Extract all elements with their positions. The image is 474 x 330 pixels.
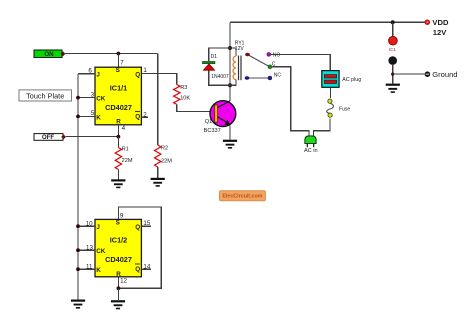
- junction rail: [391, 20, 395, 24]
- svg-text:22M: 22M: [161, 159, 172, 165]
- wire left bus vertical: [77, 74, 79, 300]
- relay contacts: [245, 52, 282, 80]
- wire pin5 K stub: [78, 115, 95, 117]
- terminal VDD 12V: [425, 18, 449, 37]
- svg-text:R3: R3: [180, 85, 187, 91]
- wire pin6 J stub: [78, 73, 95, 75]
- svg-text:CD4027: CD4027: [105, 103, 132, 112]
- svg-text:Q1: Q1: [205, 119, 212, 125]
- junction pin3 node: [76, 96, 80, 100]
- svg-text:ElecCircuit.com: ElecCircuit.com: [222, 194, 262, 200]
- svg-text:4: 4: [122, 125, 126, 132]
- wire emitter to ground: [229, 125, 231, 139]
- svg-text:J: J: [96, 71, 100, 78]
- svg-text:J: J: [96, 224, 100, 231]
- svg-text:R1: R1: [122, 146, 129, 152]
- wire ON to node: [64, 53, 158, 55]
- junction coil bottom: [228, 83, 232, 87]
- svg-text:VDD: VDD: [432, 18, 449, 27]
- wire OFF to pin4: [66, 136, 118, 138]
- svg-text:CK: CK: [96, 248, 106, 255]
- svg-text:K: K: [96, 114, 101, 121]
- wire pin11 stub: [78, 268, 95, 270]
- svg-text:Q: Q: [135, 113, 140, 120]
- svg-text:IC1: IC1: [389, 47, 396, 52]
- svg-text:S: S: [116, 219, 120, 226]
- transistor Q1 BC337: [204, 101, 236, 134]
- svg-text:K: K: [96, 267, 101, 274]
- junction S node: [117, 52, 121, 56]
- IC1 ground pin: [388, 56, 397, 83]
- IC U1:A CD4027 body: [95, 67, 141, 126]
- label Touch Plate: [19, 90, 72, 101]
- ground R2: [151, 178, 165, 187]
- junction coil top: [228, 46, 232, 50]
- svg-text:BC337: BC337: [204, 128, 221, 134]
- svg-text:S: S: [116, 67, 120, 74]
- junction ground node: [391, 73, 394, 76]
- svg-text:Touch Plate: Touch Plate: [26, 91, 64, 100]
- svg-text:D1: D1: [211, 54, 218, 60]
- wire NO to AC plug: [271, 54, 330, 70]
- terminal ON: [34, 50, 65, 58]
- svg-text:IC1/2: IC1/2: [110, 236, 127, 245]
- wire fuse to AC in: [314, 118, 330, 135]
- terminal OFF: [34, 134, 66, 142]
- wire S pin9 loop: [118, 207, 161, 288]
- relay RY1 coil: [230, 41, 245, 86]
- svg-text:ON: ON: [44, 51, 54, 58]
- svg-text:10K: 10K: [180, 96, 190, 102]
- junction pin4/R1: [117, 135, 121, 139]
- watermark ElecCircuit.com: [220, 191, 266, 201]
- svg-text:AC plug: AC plug: [342, 77, 361, 83]
- svg-text:12: 12: [120, 278, 127, 285]
- svg-text:1N4007: 1N4007: [211, 74, 229, 80]
- svg-text:Q: Q: [135, 224, 140, 231]
- svg-text:Ground: Ground: [432, 70, 457, 79]
- wire to Ground terminal: [393, 73, 425, 75]
- fuse F1: [327, 99, 351, 117]
- wire ON net down to R2: [157, 54, 159, 146]
- wire S pin7: [117, 54, 119, 68]
- svg-text:12V: 12V: [235, 46, 245, 52]
- resistor R3: [174, 85, 211, 112]
- diode D1 1N4007: [202, 48, 230, 85]
- wire C to AC in: [272, 67, 309, 136]
- svg-text:Q: Q: [135, 266, 140, 273]
- svg-text:9: 9: [120, 213, 124, 220]
- junction pin11: [76, 267, 80, 271]
- wire pin3 CK stub: [78, 97, 95, 99]
- junction pin5 node: [76, 115, 80, 119]
- wire pin4 R stub: [117, 125, 119, 137]
- wire pin14 stub: [141, 268, 150, 270]
- svg-text:CK: CK: [96, 96, 106, 103]
- terminal Ground: [425, 70, 458, 79]
- svg-text:NC: NC: [274, 73, 282, 79]
- IC U1:B CD4027 body: [95, 219, 141, 277]
- wire pin10 stub: [78, 225, 95, 227]
- junction pin10: [76, 224, 80, 228]
- wire pin15 stub: [141, 225, 150, 227]
- ground left bus: [71, 300, 85, 309]
- ground pin12: [111, 300, 125, 309]
- AC in plug: [304, 136, 318, 154]
- ground Q1: [223, 140, 237, 149]
- svg-text:IC1/1: IC1/1: [110, 84, 127, 93]
- junction pin13: [76, 248, 80, 252]
- resistor R2: [155, 145, 173, 178]
- wire pin13 stub: [78, 249, 95, 251]
- svg-text:22M: 22M: [122, 158, 133, 164]
- svg-text:7: 7: [120, 59, 124, 66]
- wire pin2 Qbar stub: [141, 116, 148, 118]
- wire Q pin1 to R3: [141, 74, 176, 85]
- wire pin12 R stub: [117, 277, 119, 289]
- svg-text:OFF: OFF: [42, 134, 55, 141]
- ground symbol right: [386, 84, 400, 93]
- AC plug: [322, 71, 361, 88]
- svg-text:R: R: [116, 118, 121, 125]
- svg-text:Fuse: Fuse: [339, 107, 350, 113]
- svg-text:12V: 12V: [433, 28, 447, 37]
- junction pin12: [117, 286, 121, 290]
- ground R1: [111, 179, 125, 188]
- svg-text:R2: R2: [161, 145, 168, 151]
- svg-text:NO: NO: [273, 53, 281, 59]
- svg-text:Q: Q: [135, 71, 140, 78]
- svg-text:CD4027: CD4027: [105, 255, 132, 264]
- svg-text:AC in: AC in: [304, 148, 318, 154]
- resistor R1: [115, 137, 133, 180]
- wire AC plug to fuse: [329, 87, 331, 98]
- wire pin12 to ground: [117, 288, 119, 300]
- IC1 power pin: [389, 22, 398, 52]
- wire collector to coil rail: [229, 22, 231, 101]
- top power rail: [230, 21, 425, 23]
